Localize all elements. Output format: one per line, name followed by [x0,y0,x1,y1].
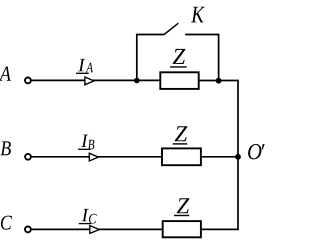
label B (phase B terminal name) [1,141,11,155]
wire C: Z box to right bus corner [201,228,239,230]
underline of I_A (phasor bar) [76,72,89,74]
impedance Z box (phase C) [163,221,201,237]
underline of I_C (phasor bar) [79,223,92,225]
junction dot: right switch tap on wire A [216,78,222,84]
wire: right bus (phase A corner down to phase C corner) [237,80,239,230]
label I_B (current) [81,135,94,150]
label C (phase C terminal name) [1,216,12,230]
terminal A [25,78,31,84]
label Z (phase C impedance) [177,198,190,213]
junction dot: node O' on right bus [235,154,241,160]
wire C: terminal to Z box [31,228,163,230]
junction dot: left switch tap on wire A [134,78,140,84]
underline of Z (phase A) [170,66,187,68]
current arrow I_B [89,153,98,161]
wire A: terminal to Z box [31,79,161,81]
label Z (phase A impedance) [173,49,186,64]
label O' (neutral node) [248,144,265,159]
terminal B [25,154,31,160]
label I_A (current) [78,59,93,72]
impedance Z box (phase B) [162,148,201,165]
wire: left switch riser and top-left segment [137,35,164,81]
switch K blade (open) [164,23,179,35]
label K (switch) [191,7,205,23]
label A (phase A terminal name) [0,67,11,81]
current arrow I_C [90,226,100,234]
wire B: terminal to Z box [31,156,163,158]
terminal C [25,227,31,233]
wire: top-right segment and right switch riser [185,35,218,81]
underline of Z (phase C) [174,215,189,217]
underline of I_B (phasor bar) [78,148,91,150]
underline of Z (phase B) [173,143,188,145]
current arrow I_A [85,77,94,85]
label I_C (current) [82,209,97,224]
wire B: Z box to node O' [201,156,238,158]
label Z (phase B impedance) [175,126,188,141]
impedance Z box (phase A) [160,72,198,89]
wire A: Z box to right bus [199,80,239,82]
